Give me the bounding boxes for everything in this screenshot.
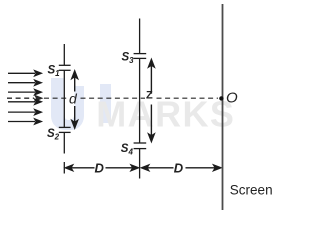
watermark blue U shape bbox=[51, 78, 111, 130]
svg-text:O: O bbox=[226, 90, 238, 107]
central dashed ray with arrowhead bbox=[7, 96, 42, 101]
svg-text:S1: S1 bbox=[48, 65, 61, 78]
incident ray 4 bbox=[8, 99, 41, 104]
D1 dimension right arrow bbox=[106, 165, 139, 171]
slit S2 lower plate + barrier 1 bottom segment bbox=[59, 132, 71, 153]
D1 dimension left arrow bbox=[65, 165, 94, 171]
slit S4 lower plate + barrier 2 bottom segment bbox=[134, 149, 147, 179]
slit S3 lower plate + barrier 2 middle segment bbox=[134, 58, 147, 143]
D2 dimension right arrow bbox=[186, 165, 222, 171]
slit barrier 2 top segment bbox=[134, 19, 147, 54]
d dimension down arrow bbox=[72, 106, 78, 128]
Z dimension up arrow bbox=[149, 60, 155, 94]
central axis dashed line bbox=[44, 97, 218, 99]
slit S1 lower plate + barrier 1 middle segment bbox=[59, 70, 71, 127]
D2 dimension left arrow bbox=[141, 165, 173, 171]
incident ray 2 bbox=[8, 80, 41, 85]
svg-text:MARKS: MARKS bbox=[96, 93, 235, 134]
svg-text:Screen: Screen bbox=[230, 182, 273, 197]
incident ray 3 bbox=[8, 90, 41, 95]
svg-text:D: D bbox=[174, 160, 184, 175]
point O dot bbox=[219, 96, 223, 100]
incident ray 5 bbox=[8, 110, 41, 115]
svg-text:S4: S4 bbox=[121, 143, 134, 156]
Z dimension down arrow bbox=[149, 105, 155, 142]
incident ray 6 bbox=[8, 119, 41, 124]
svg-text:Z: Z bbox=[146, 90, 153, 102]
svg-text:S3: S3 bbox=[122, 52, 135, 65]
svg-text:S2: S2 bbox=[47, 128, 60, 141]
d dimension up arrow bbox=[72, 71, 78, 92]
svg-text:D: D bbox=[95, 160, 105, 175]
svg-text:d: d bbox=[69, 90, 78, 106]
D1 dimension left tick bbox=[63, 162, 65, 174]
incident ray 1 bbox=[8, 71, 41, 76]
screen line bbox=[222, 4, 224, 210]
slit barrier 1 top segment bbox=[59, 44, 71, 65]
